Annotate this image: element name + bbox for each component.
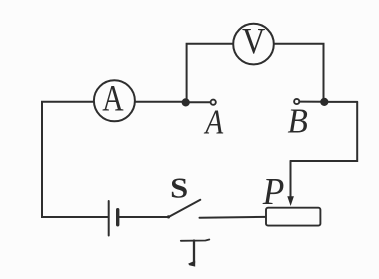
svg-text:V: V — [242, 22, 265, 62]
svg-text:A: A — [102, 79, 123, 120]
svg-text:B: B — [288, 103, 309, 141]
svg-text:P: P — [262, 170, 285, 212]
svg-text:A: A — [204, 102, 224, 141]
svg-text:S: S — [170, 172, 188, 204]
